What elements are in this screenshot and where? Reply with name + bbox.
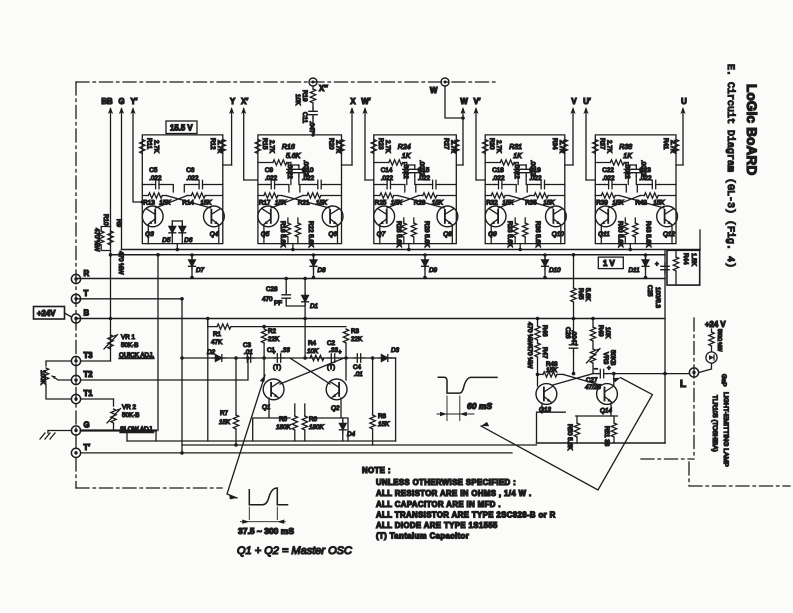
resistor 560 1/2W lamp — [709, 329, 723, 352]
svg-text:R4: R4 — [308, 340, 317, 347]
svg-text:R36 5.6K: R36 5.6K — [534, 221, 541, 248]
svg-text:R26 5.6K: R26 5.6K — [395, 221, 402, 248]
svg-text:D1: D1 — [310, 303, 318, 310]
diode D11 — [629, 253, 649, 279]
resistor R16 5.6K — [258, 144, 301, 165]
svg-text:L: L — [680, 379, 686, 390]
resistor R12 2.7K — [209, 138, 226, 154]
svg-text:R33 5.6K: R33 5.6K — [506, 221, 513, 248]
svg-text:R16: R16 — [282, 144, 295, 151]
svg-text:470 ½W: 470 ½W — [117, 251, 125, 275]
wire Q14 emitter rail — [576, 415, 618, 417]
annotation arrow waveform to Q1 — [227, 375, 265, 499]
svg-text:+24 V: +24 V — [705, 320, 726, 329]
border dash-dot frame right — [641, 318, 790, 486]
svg-text:R: R — [84, 269, 90, 278]
svg-text:R34: R34 — [551, 138, 558, 150]
resistor R44 1.5K in box — [667, 250, 700, 285]
svg-text:W′: W′ — [361, 97, 370, 106]
svg-text:BB: BB — [101, 97, 113, 106]
svg-text:C4: C4 — [353, 364, 362, 371]
svg-text:2.7K: 2.7K — [268, 140, 275, 154]
resistor R28 15K — [414, 193, 457, 207]
svg-text:V: V — [571, 97, 577, 106]
svg-text:VR 1: VR 1 — [121, 334, 135, 341]
svg-text:C9: C9 — [265, 167, 274, 174]
wire T3 to VR1 — [81, 360, 111, 362]
svg-text:47K: 47K — [211, 339, 223, 346]
svg-text:C1: C1 — [267, 347, 276, 354]
transistor Q9 — [485, 206, 506, 244]
svg-text:R37: R37 — [598, 138, 605, 150]
svg-text:E. Circuit Diagram (GL-3) (Fi: E. Circuit Diagram (GL-3) (Fig. 4) — [724, 64, 736, 268]
svg-text:R47: R47 — [541, 347, 548, 359]
wire Q1/Q2 emitter rails — [253, 398, 348, 441]
svg-text:470 ¼W: 470 ¼W — [526, 345, 533, 369]
svg-text:2.7K: 2.7K — [495, 140, 502, 154]
svg-text:V′: V′ — [473, 97, 480, 106]
svg-text:R40 5.6K: R40 5.6K — [616, 221, 623, 248]
svg-text:.022: .022 — [492, 175, 505, 182]
svg-text:+24V: +24V — [37, 309, 56, 318]
potentiometer VR2 50K-B — [107, 399, 154, 433]
svg-text:R5: R5 — [279, 416, 288, 423]
transistor Q4 — [204, 206, 225, 244]
svg-text:2.7K: 2.7K — [216, 140, 223, 154]
resistor R32 15K — [485, 193, 514, 207]
resistor R10 470 1/2W — [93, 214, 111, 252]
svg-text:C15: C15 — [418, 167, 430, 174]
resistor R22 5.6K — [295, 218, 314, 248]
svg-text:2.7K: 2.7K — [605, 140, 612, 154]
node V' output arrow — [473, 97, 480, 180]
resistor R35 15K — [525, 193, 565, 207]
capacitor C9 .022 — [258, 167, 289, 192]
wire vertical x182 (T drop) — [181, 299, 183, 453]
node W output arrow — [460, 97, 468, 165]
svg-text:C19: C19 — [529, 167, 541, 174]
svg-text:1.5K: 1.5K — [690, 253, 697, 267]
svg-text:50KB: 50KB — [609, 350, 616, 365]
resistor R27 2.7K — [442, 138, 459, 154]
node V output arrow — [570, 97, 577, 165]
terminal L — [680, 368, 699, 390]
wire stage Q3/Q4 frame — [142, 135, 223, 244]
svg-text:G: G — [118, 97, 124, 106]
wire cross-coupling Q3/Q4 — [155, 196, 211, 209]
svg-text:Q4: Q4 — [210, 231, 219, 238]
resistor R5 180K — [276, 404, 297, 441]
capacitor C12 .0022 — [402, 163, 411, 185]
svg-text:ALL CAPACITOR ARE IN MFD .: ALL CAPACITOR ARE IN MFD . — [376, 500, 501, 509]
svg-text:Q2: Q2 — [331, 405, 340, 412]
node Y&#8242; output arrow — [130, 97, 144, 204]
wire T' line — [81, 452, 512, 454]
wire cross-coupling Q11/Q12 — [608, 196, 664, 209]
resistor R47 470 — [526, 340, 548, 374]
svg-text:2.7K: 2.7K — [384, 140, 391, 154]
wire stage drop to bus — [408, 244, 410, 250]
svg-text:22K: 22K — [268, 336, 280, 343]
svg-text:+: + — [607, 365, 611, 372]
svg-text:Q8: Q8 — [443, 231, 452, 238]
svg-text:T3: T3 — [84, 351, 94, 360]
capacitor C25 100/6.3 — [646, 261, 669, 309]
svg-text:1 V: 1 V — [603, 259, 616, 268]
svg-text:180K: 180K — [309, 424, 325, 431]
transistor Q3 — [142, 206, 163, 244]
resistor R36 5.6K — [523, 218, 542, 248]
svg-text:15K: 15K — [378, 421, 390, 428]
svg-text:.0047: .0047 — [570, 330, 577, 346]
svg-text:.022: .022 — [302, 175, 315, 182]
wire osc cross coupling — [280, 358, 344, 384]
svg-text:2.7K: 2.7K — [152, 140, 159, 154]
svg-text:GaP: GaP — [720, 374, 727, 387]
svg-text:R30: R30 — [488, 138, 495, 150]
svg-text:X′: X′ — [241, 97, 248, 106]
svg-text:R50 5.6K: R50 5.6K — [566, 424, 573, 451]
svg-text:G: G — [84, 421, 90, 430]
svg-text:Q6: Q6 — [329, 231, 338, 238]
wire cross-coupling Q7/Q8 — [387, 196, 445, 209]
svg-text:10K: 10K — [604, 327, 611, 339]
transistor Q8 — [437, 206, 458, 244]
diode D9 — [422, 253, 438, 279]
wire L line — [614, 373, 690, 375]
svg-text:50K·B: 50K·B — [121, 342, 139, 349]
resistor R41 2.7K — [662, 138, 679, 154]
terminal X&#8243; — [309, 78, 328, 93]
wire emitter bus 1 — [122, 249, 701, 251]
1V label box — [598, 257, 623, 269]
wire vertical x158 (G net riser) — [157, 255, 159, 431]
node BB output arrow — [101, 97, 113, 227]
svg-text:Q7: Q7 — [377, 231, 386, 238]
diode D7 — [189, 253, 205, 279]
svg-text:R22 5.6K: R22 5.6K — [307, 221, 314, 248]
resistor R38 1K — [595, 144, 632, 165]
GaP LIGHT-EMITTING LAMP TLR105 (TOSHIBA) labels — [711, 374, 729, 467]
svg-text:R1: R1 — [213, 331, 222, 338]
capacitor C7 .0022 — [286, 163, 295, 185]
resistor R15 2.7K — [255, 138, 275, 154]
capacitor C2 .33 (T) — [327, 340, 342, 371]
svg-text:T2: T2 — [84, 370, 94, 379]
resistor R11 2.7K — [140, 138, 160, 154]
resistor R17 15K — [258, 193, 287, 207]
terminal T1 — [71, 389, 93, 404]
wire monostable cross coupling — [553, 374, 600, 385]
wire cross-coupling Q9/Q10 — [498, 196, 553, 209]
wire stage drop to bus — [292, 244, 294, 250]
capacitor C26 .0047 — [564, 319, 578, 376]
transistor Q11 — [595, 206, 616, 244]
wire T2 line — [81, 358, 248, 380]
diode D2 — [207, 349, 225, 361]
svg-text:LIGHT-EMITTING LAMP: LIGHT-EMITTING LAMP — [722, 392, 729, 467]
svg-text:W: W — [430, 86, 438, 95]
terminal B — [71, 309, 89, 324]
wire bottom rail 2 — [182, 444, 537, 446]
svg-text:Q1 + Q2 = Master OSC: Q1 + Q2 = Master OSC — [237, 545, 352, 557]
resistor R50 5.6K — [566, 416, 580, 451]
svg-text:LoGic BoARD: LoGic BoARD — [744, 84, 759, 175]
transistor Q5 — [258, 206, 279, 244]
svg-text:C22: C22 — [602, 167, 614, 174]
terminal G — [71, 421, 89, 436]
svg-text:T: T — [84, 289, 89, 298]
node X' output arrow — [241, 97, 248, 180]
capacitor C27 47/25 — [585, 365, 614, 391]
svg-text:.022: .022 — [149, 175, 162, 182]
svg-text:U: U — [681, 97, 687, 106]
svg-text:60 mS: 60 mS — [467, 401, 492, 411]
resistor R20 2.7K — [328, 138, 345, 154]
resistor R49 10K — [590, 317, 611, 348]
svg-text:R7: R7 — [220, 410, 229, 417]
svg-text:50K·B: 50K·B — [122, 412, 140, 419]
diode D5 — [162, 221, 175, 244]
svg-text:2.7K: 2.7K — [335, 140, 342, 154]
svg-text:15.5 V: 15.5 V — [170, 124, 193, 133]
resistor R3 22K — [343, 328, 363, 360]
svg-text:15K: 15K — [219, 419, 231, 426]
svg-text:W: W — [460, 97, 468, 106]
svg-text:C28: C28 — [266, 286, 278, 293]
svg-text:R11: R11 — [145, 138, 152, 150]
resistor R23 2.7K — [371, 138, 391, 154]
svg-text:D9: D9 — [429, 267, 438, 274]
svg-text:R31: R31 — [509, 144, 522, 151]
svg-text:+: + — [655, 261, 659, 268]
svg-text:D11: D11 — [629, 267, 640, 274]
svg-text:180K: 180K — [276, 424, 292, 431]
svg-text:Q5: Q5 — [261, 231, 270, 238]
svg-text:TLR105 (TOSHIBA): TLR105 (TOSHIBA) — [711, 395, 718, 452]
wire D5 D6 tops — [172, 220, 182, 222]
svg-text:1K: 1K — [623, 153, 632, 160]
resistor R1 47K — [206, 317, 264, 346]
svg-text:.01: .01 — [244, 349, 253, 356]
resistor R37 2.7K — [593, 138, 613, 154]
svg-text:D10: D10 — [549, 267, 561, 274]
resistor R2 22K — [261, 328, 280, 360]
border dash-dot frame left — [75, 82, 77, 488]
svg-text:R38: R38 — [619, 144, 632, 151]
svg-text:2.7K: 2.7K — [558, 140, 565, 154]
svg-text:R27: R27 — [442, 138, 449, 150]
node G output arrow — [118, 97, 124, 250]
border dash-dot frame bottom-left — [76, 487, 222, 489]
svg-text:B: B — [84, 309, 90, 318]
capacitor C3 .01 — [243, 342, 255, 362]
node U output arrow — [680, 97, 687, 165]
diode D8 — [310, 253, 326, 279]
capacitor C6 .022 — [184, 167, 223, 192]
svg-text:D8: D8 — [318, 267, 327, 274]
svg-text:R45: R45 — [577, 288, 584, 300]
wire cross-coupling Q5/Q6 — [271, 196, 330, 209]
svg-text:Y′: Y′ — [130, 97, 137, 106]
transistor Q7 — [374, 206, 395, 244]
potentiometer VR3 50KB — [587, 349, 617, 374]
svg-text:+: + — [338, 349, 342, 356]
svg-text:ALL DIODE ARE TYPE 1S1555: ALL DIODE ARE TYPE 1S1555 — [376, 521, 498, 530]
capacitor C17 .0022 — [518, 160, 536, 185]
capacitor C18 .022 — [485, 167, 516, 192]
svg-text:2.7K: 2.7K — [449, 140, 456, 154]
svg-text:.33: .33 — [329, 347, 338, 354]
capacitor C20 .0022 — [623, 163, 632, 185]
terminal W — [430, 78, 465, 120]
svg-text:100K: 100K — [39, 370, 46, 386]
svg-text:VR 2: VR 2 — [122, 404, 136, 411]
resistor R13 15K — [142, 193, 171, 207]
wire osc box left edge — [207, 319, 209, 442]
svg-text:R49: R49 — [597, 325, 604, 337]
transistor Q13 — [536, 374, 557, 413]
svg-text:.022: .022 — [381, 175, 394, 182]
transistor Q10 — [546, 206, 567, 244]
resistor R8 15K — [370, 356, 390, 445]
svg-text:470 ½W: 470 ½W — [93, 228, 101, 252]
svg-text:R19: R19 — [301, 90, 308, 102]
node +24V supply box — [34, 307, 72, 320]
svg-text:D5: D5 — [162, 237, 171, 244]
terminal T' — [71, 443, 90, 458]
svg-text:R51 33: R51 33 — [603, 426, 610, 447]
svg-text:QUICK ADJ.: QUICK ADJ. — [119, 352, 154, 359]
wire bottom rail 1 — [127, 440, 396, 442]
resistor R18 5.6K — [279, 218, 291, 248]
svg-text:C23: C23 — [639, 167, 651, 174]
wire R net bus — [76, 278, 665, 280]
svg-text:R43 5.6K: R43 5.6K — [644, 221, 651, 248]
svg-text:37.5 ~ 300 mS: 37.5 ~ 300 mS — [238, 526, 294, 536]
wire G box — [127, 431, 156, 442]
terminal T3 — [71, 351, 93, 366]
node W' output arrow — [361, 97, 370, 180]
capacitor C16 .0022 — [513, 163, 522, 185]
svg-text:R9: R9 — [115, 219, 122, 228]
svg-text:C25: C25 — [646, 285, 653, 297]
svg-text:5.6K: 5.6K — [584, 288, 591, 302]
svg-text:.047: .047 — [308, 121, 315, 134]
annotation arrow 60mS to Q14 — [481, 378, 652, 490]
svg-text:C10: C10 — [302, 167, 314, 174]
diode D10 — [542, 253, 561, 279]
svg-text:.01: .01 — [354, 371, 363, 378]
transistor Q14 — [597, 374, 618, 416]
svg-text:(T): (T) — [273, 364, 281, 371]
resistor R21 15K — [298, 193, 342, 207]
resistor R45 5.6K — [571, 253, 591, 320]
wire stage drop to bus — [629, 244, 631, 250]
resistor R29 5.6K — [411, 218, 430, 248]
svg-text:D6: D6 — [184, 237, 193, 244]
wire stage Q7/Q8 frame — [374, 135, 457, 244]
resistor R25 15K — [374, 193, 403, 207]
svg-text:C11: C11 — [301, 112, 308, 124]
svg-text:.022: .022 — [418, 175, 431, 182]
capacitor C4 .01 — [353, 354, 365, 378]
wire stage drop to bus — [519, 244, 521, 250]
svg-text:(T) Tantalum Capacitor: (T) Tantalum Capacitor — [376, 532, 469, 541]
svg-text:C3: C3 — [243, 342, 252, 349]
svg-text:R3: R3 — [351, 328, 360, 335]
svg-text:R2: R2 — [268, 328, 277, 335]
wire stage5 to R44 — [699, 230, 701, 250]
resistor R6 180K — [302, 404, 324, 441]
svg-text:.022: .022 — [529, 175, 542, 182]
svg-text:Q12: Q12 — [663, 231, 675, 238]
potentiometer VR1 50K-B — [104, 334, 154, 359]
svg-text:470 ¼W: 470 ¼W — [526, 322, 533, 346]
svg-text:.33: .33 — [281, 347, 290, 354]
svg-text:D3: D3 — [391, 347, 400, 354]
LED lamp TLR105 — [699, 352, 717, 373]
svg-text:R15: R15 — [261, 138, 268, 150]
resistor R42 15K — [635, 193, 676, 207]
svg-text:R44: R44 — [682, 253, 689, 265]
capacitor C10 .022 — [300, 167, 342, 192]
capacitor C22 .022 — [595, 167, 626, 192]
junction BB line crossings — [109, 253, 113, 257]
node U' output arrow — [583, 97, 591, 180]
svg-text:C26: C26 — [564, 327, 571, 339]
capacitor C21 .0022 — [628, 160, 646, 185]
resistor R39 15K — [595, 193, 624, 207]
svg-text:.022: .022 — [265, 175, 278, 182]
svg-text:C18: C18 — [492, 167, 504, 174]
svg-text:D4: D4 — [347, 431, 356, 438]
resistor R33 5.6K — [506, 218, 518, 248]
svg-text:D7: D7 — [196, 267, 205, 274]
svg-text:R8: R8 — [378, 413, 387, 420]
resistor R9 470 1/2W — [108, 219, 125, 275]
svg-text:T1: T1 — [84, 389, 94, 398]
ground — [40, 431, 71, 440]
svg-text:C5: C5 — [149, 167, 158, 174]
resistor R7 15K — [219, 356, 239, 447]
resistor R14 15K — [182, 193, 223, 207]
node Y output arrow — [229, 97, 236, 165]
svg-text:PF: PF — [274, 300, 282, 307]
wire D3 corner down — [391, 358, 396, 441]
svg-text:.022: .022 — [602, 175, 615, 182]
svg-text:R18 5.6K: R18 5.6K — [279, 221, 286, 248]
capacitor C19 .022 — [527, 167, 565, 192]
transistor Q2 — [326, 358, 347, 412]
transistor Q12 — [657, 206, 678, 244]
resistor R46 470 — [526, 317, 548, 346]
svg-text:R20: R20 — [328, 138, 335, 150]
wire bottom rail right (monostable) — [537, 442, 666, 444]
wire stage drop to bus — [176, 244, 178, 250]
diode D6 — [179, 221, 193, 244]
capacitor C11 .047 — [301, 103, 317, 137]
svg-text:560Ω ½W: 560Ω ½W — [716, 329, 723, 352]
wire stage Q9/Q10 frame — [485, 135, 565, 244]
wire osc top rail — [264, 326, 346, 328]
svg-text:15K: 15K — [546, 367, 558, 374]
svg-text:C14: C14 — [381, 167, 393, 174]
resistor R26 5.6K — [395, 218, 407, 248]
diode D4 — [339, 418, 355, 441]
svg-text:R46: R46 — [541, 325, 548, 337]
svg-text:R29 5.6K: R29 5.6K — [423, 221, 430, 248]
